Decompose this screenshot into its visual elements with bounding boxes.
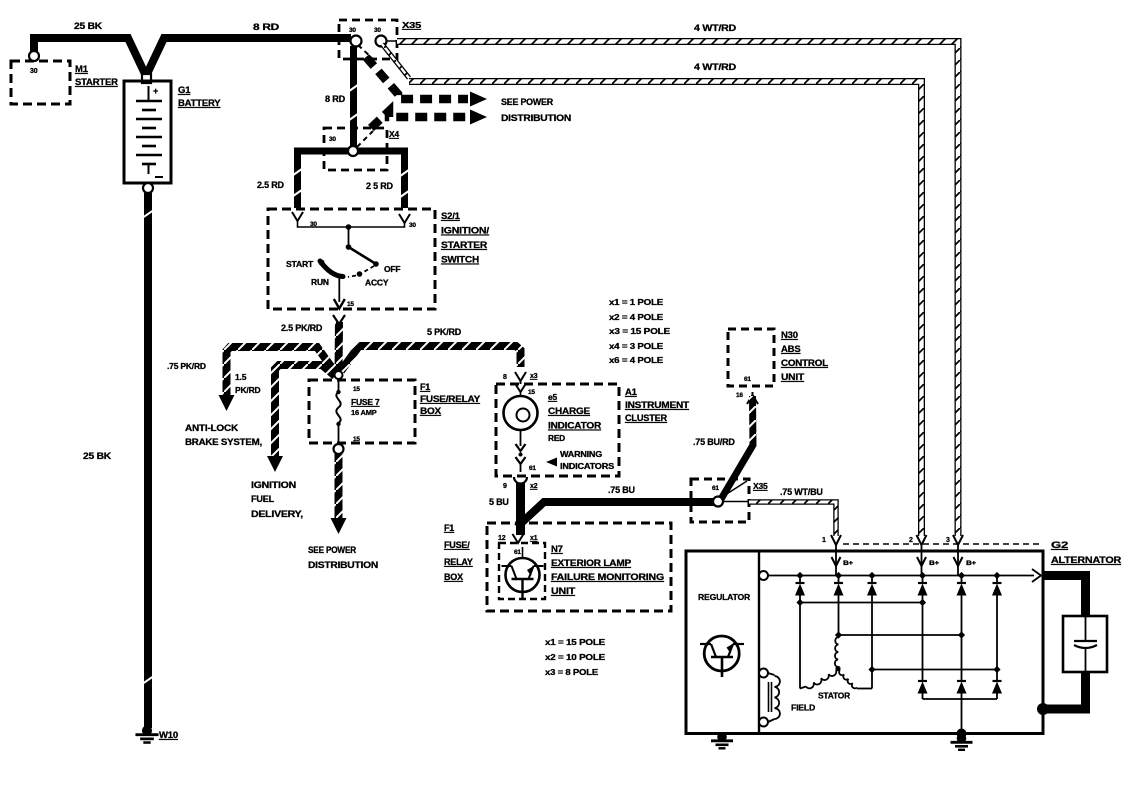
N7 inner box — [499, 543, 545, 599]
svg-text:RUN: RUN — [311, 277, 329, 287]
wire .75 PK/RD to anti-lock — [227, 347, 336, 395]
svg-text:F1: F1 — [444, 523, 454, 533]
fuse/relay box F1 lower — [487, 523, 671, 611]
svg-text:8 RD: 8 RD — [325, 94, 346, 104]
phase rail 3 — [871, 596, 873, 689]
svg-text:START: START — [286, 259, 314, 269]
svg-text:OFF: OFF — [384, 264, 400, 274]
svg-text:15: 15 — [353, 436, 360, 443]
svg-text:IGNITION/: IGNITION/ — [441, 226, 490, 237]
svg-text:.75 WT/BU: .75 WT/BU — [780, 487, 823, 497]
svg-text:SEE POWER: SEE POWER — [501, 97, 554, 107]
fuse 7 symbol — [338, 379, 340, 392]
N7 transistor — [506, 558, 540, 592]
svg-text:x2: x2 — [530, 483, 538, 490]
rectifier diode bottom column x=922.5 — [918, 680, 927, 682]
svg-text:4 WT/RD: 4 WT/RD — [694, 62, 737, 72]
lamp to warning indicators link — [520, 430, 522, 446]
svg-text:12: 12 — [498, 535, 506, 542]
svg-text:8 RD: 8 RD — [253, 22, 280, 32]
svg-text:G2: G2 — [1051, 540, 1068, 551]
wire 5 PK/RD junction to cluster — [341, 346, 521, 371]
X4 dashed lead — [357, 131, 373, 147]
N30 pin 16 connector — [747, 395, 758, 404]
switch output connector — [333, 315, 345, 324]
svg-text:X35: X35 — [753, 481, 768, 491]
battery G1 box — [124, 81, 171, 183]
D+ bus line — [764, 575, 1034, 577]
svg-text:W10: W10 — [159, 730, 178, 741]
svg-text:N30: N30 — [781, 330, 798, 341]
see power distribution arrow 1 — [366, 57, 468, 99]
svg-text:2.5 PK/RD: 2.5 PK/RD — [281, 323, 323, 333]
alternator ground — [957, 734, 967, 744]
svg-text:15: 15 — [347, 301, 354, 308]
svg-text:ANTI-LOCK: ANTI-LOCK — [185, 423, 239, 433]
wire 1.5 PK/RD to ignition fuel — [275, 365, 335, 456]
alternator connector dashed bar — [843, 543, 1040, 545]
alternator G2 box — [686, 551, 1043, 734]
svg-text:4 WT/RD: 4 WT/RD — [694, 23, 737, 33]
capacitor box — [1063, 616, 1107, 672]
battery G1 plus terminal — [142, 74, 151, 83]
svg-text:x3: x3 — [530, 373, 538, 380]
wire 4 WT/RD lower — [409, 82, 922, 537]
capacitor wire bottom — [1046, 672, 1086, 709]
svg-text:61: 61 — [529, 465, 536, 472]
svg-text:.75 BU: .75 BU — [608, 485, 635, 495]
switch wiper arc — [320, 261, 343, 277]
X35 lower line to right edge — [723, 501, 749, 503]
svg-text:PK/RD: PK/RD — [235, 385, 261, 395]
rectifier diode top column x=800 — [799, 576, 801, 584]
svg-text:61: 61 — [744, 376, 751, 383]
regulator transistor — [704, 636, 739, 671]
X35 lead line to wire — [386, 40, 399, 42]
svg-text:.75 BU/RD: .75 BU/RD — [693, 437, 735, 447]
svg-text:x1 = 15 POLE: x1 = 15 POLE — [545, 637, 606, 647]
svg-text:FUSE/RELAY: FUSE/RELAY — [420, 394, 480, 404]
svg-text:e5: e5 — [548, 392, 558, 402]
svg-text:x1 = 1 POLE: x1 = 1 POLE — [609, 297, 664, 307]
svg-text:STARTER: STARTER — [75, 77, 118, 88]
svg-text:3: 3 — [946, 537, 950, 544]
svg-text:S2/1: S2/1 — [441, 211, 461, 222]
B+ arrows inside box — [832, 557, 841, 566]
capacitor symbol — [1085, 616, 1087, 641]
svg-text:30: 30 — [329, 136, 336, 143]
svg-text:61: 61 — [514, 549, 521, 556]
svg-text:BOX: BOX — [420, 406, 441, 416]
switch pin 30 left — [292, 212, 303, 221]
X35 left terminal — [351, 36, 362, 47]
svg-text:CHARGE: CHARGE — [548, 406, 590, 417]
svg-text:x1: x1 — [530, 535, 538, 542]
B+ stems above bus — [835, 551, 837, 576]
wire 5 BU cluster to N7 — [516, 483, 525, 535]
svg-text:CLUSTER: CLUSTER — [625, 413, 667, 424]
svg-text:16 AMP: 16 AMP — [351, 408, 377, 417]
connector X35 top box — [339, 20, 397, 59]
svg-text:2: 2 — [909, 537, 913, 544]
svg-text:ALTERNATOR: ALTERNATOR — [1051, 555, 1121, 566]
svg-text:x2 = 10 POLE: x2 = 10 POLE — [545, 652, 606, 662]
connector X35 lower box — [691, 479, 749, 522]
svg-text:x3 = 15 POLE: x3 = 15 POLE — [609, 326, 671, 336]
svg-text:2 5 RD: 2 5 RD — [366, 181, 394, 191]
svg-text:DISTRIBUTION: DISTRIBUTION — [308, 560, 378, 570]
svg-text:F1: F1 — [420, 382, 430, 392]
switch contact arm to OFF — [349, 247, 377, 264]
svg-text:5 BU: 5 BU — [489, 497, 509, 507]
svg-text:B+: B+ — [966, 560, 976, 567]
dashed lead from X35 left terminal — [358, 45, 372, 58]
ABS control unit N30 box — [728, 329, 774, 386]
svg-text:RELAY: RELAY — [444, 557, 473, 567]
stator windings — [835, 637, 839, 667]
instrument cluster A1 box — [496, 384, 619, 476]
rectifier diode top column x=997 — [996, 576, 998, 584]
svg-text:.75 PK/RD: .75 PK/RD — [167, 361, 206, 371]
ignition fuel arrow — [267, 456, 283, 472]
wire 8 RD battery to X35 — [146, 38, 351, 76]
svg-text:B+: B+ — [929, 560, 939, 567]
svg-text:1: 1 — [822, 537, 826, 544]
svg-text:30: 30 — [30, 68, 38, 75]
svg-text:15: 15 — [353, 386, 360, 393]
svg-text:30: 30 — [409, 222, 416, 229]
battery G1 minus terminal — [143, 183, 153, 193]
svg-text:30: 30 — [349, 27, 356, 34]
svg-text:BATTERY: BATTERY — [178, 98, 221, 109]
rectifier diode bottom column x=961.5 — [957, 680, 966, 682]
rectifier diode top column x=872 — [871, 576, 873, 584]
svg-text:ABS: ABS — [781, 344, 800, 355]
svg-text:x2 = 4 POLE: x2 = 4 POLE — [609, 312, 664, 322]
X35 lower lead — [722, 481, 747, 497]
svg-text:30: 30 — [374, 27, 381, 34]
svg-text:BRAKE SYSTEM,: BRAKE SYSTEM, — [185, 437, 262, 447]
X35 lead to second wire — [382, 44, 409, 78]
field winding — [759, 669, 768, 678]
switch pin 30 right — [399, 214, 410, 223]
fuse box bottom terminal — [334, 444, 344, 454]
svg-text:G1: G1 — [178, 85, 191, 96]
wire 25 BK battery to starter — [34, 38, 146, 76]
X4 terminal — [348, 146, 358, 156]
svg-text:FUSE 7: FUSE 7 — [351, 397, 380, 407]
svg-text:+: + — [153, 86, 158, 96]
svg-text:25 BK: 25 BK — [74, 21, 103, 31]
wire .75 WT/BU — [749, 502, 836, 536]
svg-text:IGNITION: IGNITION — [251, 480, 296, 490]
switch pin 15 — [338, 277, 340, 302]
wire .75 BU/RD N30 to X35 — [749, 396, 757, 447]
negative diodes column joins — [922, 596, 924, 682]
svg-text:WARNING: WARNING — [560, 450, 602, 459]
svg-text:STATOR: STATOR — [818, 691, 850, 701]
X35 right terminal — [376, 36, 387, 47]
svg-text:DISTRIBUTION: DISTRIBUTION — [501, 113, 571, 123]
svg-text:STARTER: STARTER — [441, 240, 487, 251]
svg-text:EXTERIOR LAMP: EXTERIOR LAMP — [551, 558, 632, 569]
bus terminal circle — [759, 571, 768, 580]
connector X4 box — [324, 128, 387, 170]
svg-text:ACCY: ACCY — [365, 278, 389, 288]
starter M1 terminal — [29, 51, 39, 61]
svg-text:RED: RED — [548, 434, 565, 443]
svg-text:FAILURE MONITORING: FAILURE MONITORING — [551, 572, 664, 583]
svg-text:x6 = 4 POLE: x6 = 4 POLE — [609, 355, 664, 365]
rectifier diode top column x=922.5 — [922, 576, 924, 584]
svg-text:FUEL: FUEL — [251, 494, 275, 504]
starter M1 box — [11, 61, 70, 104]
junction node — [335, 371, 343, 379]
svg-text:FIELD: FIELD — [791, 703, 815, 713]
svg-text:BOX: BOX — [444, 572, 463, 582]
svg-text:X35: X35 — [402, 20, 422, 30]
bottom rail — [923, 698, 998, 700]
svg-text:A1: A1 — [625, 387, 638, 398]
ground stem — [961, 699, 963, 734]
cluster pin 9 x2 socket — [514, 477, 527, 484]
wire 2.5 PK/RD switch to junction — [335, 322, 344, 374]
svg-text:CONTROL: CONTROL — [781, 358, 828, 369]
bus exit arrow — [1032, 569, 1041, 582]
svg-text:SEE POWER: SEE POWER — [308, 545, 357, 555]
svg-text:X4: X4 — [389, 129, 399, 139]
svg-text:5 PK/RD: 5 PK/RD — [427, 327, 462, 337]
rectifier diode top column x=838.5 — [838, 576, 840, 584]
warning indicators arrow — [546, 458, 557, 467]
svg-text:INDICATOR: INDICATOR — [548, 421, 601, 432]
svg-text:x3 = 8 POLE: x3 = 8 POLE — [545, 667, 599, 677]
svg-text:8: 8 — [503, 374, 507, 381]
svg-text:SWITCH: SWITCH — [441, 255, 479, 266]
svg-text:INDICATORS: INDICATORS — [560, 462, 615, 471]
svg-text:25 BK: 25 BK — [83, 451, 112, 461]
svg-text:B+: B+ — [843, 560, 853, 567]
svg-text:15: 15 — [528, 389, 535, 396]
svg-text:INSTRUMENT: INSTRUMENT — [625, 400, 689, 411]
svg-text:N7: N7 — [551, 544, 563, 555]
svg-text:x4 = 3 POLE: x4 = 3 POLE — [609, 341, 664, 351]
wire 2.5 RD left — [298, 151, 351, 208]
svg-text:1.5: 1.5 — [235, 372, 247, 382]
svg-text:UNIT: UNIT — [551, 586, 575, 597]
svg-text:16: 16 — [736, 392, 743, 399]
svg-text:DELIVERY,: DELIVERY, — [251, 509, 303, 519]
svg-text:UNIT: UNIT — [781, 372, 804, 383]
anti-lock arrow — [219, 395, 235, 411]
svg-text:61: 61 — [712, 485, 719, 492]
suppressor capacitor wire top — [1043, 576, 1086, 617]
ignition switch S2/1 box — [268, 209, 435, 309]
power distribution arrow — [331, 518, 347, 534]
switch pivot link — [346, 224, 352, 230]
wire 2.5 RD right — [357, 151, 405, 208]
regulator partition — [758, 551, 760, 734]
wire 25 BK battery to ground — [144, 193, 152, 728]
wire fuse to power distribution — [335, 454, 343, 519]
rectifier diode bottom column x=997 — [993, 680, 1002, 682]
switch dashed arm to ACCY — [362, 266, 374, 273]
svg-text:REGULATOR: REGULATOR — [698, 592, 750, 602]
svg-text:2.5 RD: 2.5 RD — [257, 180, 285, 190]
wire .75 BU to X35 — [517, 502, 714, 527]
see power distribution arrow 2 — [371, 111, 468, 128]
wire 4 WT/RD upper — [397, 42, 958, 537]
switch top bus line — [298, 221, 405, 227]
rectifier diode top column x=961.5 — [961, 576, 963, 584]
regulator ground — [717, 732, 727, 742]
fuse box F1 — [309, 380, 415, 443]
svg-text:FUSE/: FUSE/ — [444, 540, 470, 550]
charge indicator lamp e5 — [504, 396, 538, 430]
wire 8 RD X35 to X4 — [350, 46, 357, 147]
phase rail 2 — [838, 596, 840, 638]
phase rail 1 — [800, 602, 923, 604]
cluster pin 15 inner — [516, 385, 525, 392]
svg-text:M1: M1 — [75, 64, 89, 75]
X35 lower terminal — [713, 497, 723, 507]
ground W10 — [142, 726, 152, 736]
svg-text:9: 9 — [503, 483, 507, 490]
